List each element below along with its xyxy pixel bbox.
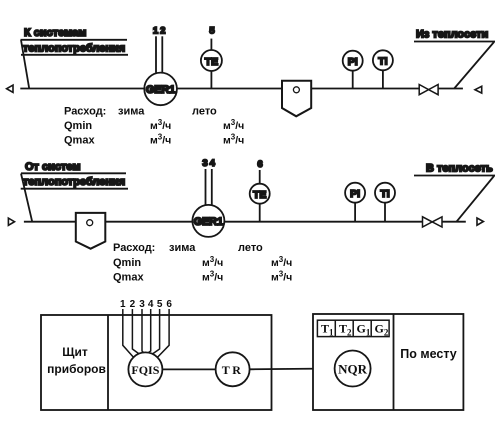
svg-text:В теплосеть: В теплосеть [426, 163, 493, 175]
callout: В теплосеть [414, 163, 495, 222]
svg-text:6: 6 [166, 299, 172, 310]
svg-text:лето: лето [238, 242, 263, 254]
svg-text:Qmax: Qmax [64, 135, 95, 147]
svg-text:3: 3 [139, 299, 145, 310]
pipe: return line [24, 221, 466, 223]
terminal strip T1 T2 G1 G2 [317, 320, 389, 337]
svg-text:PI: PI [350, 188, 360, 200]
svg-text:NQR: NQR [338, 361, 368, 376]
svg-text:2: 2 [160, 26, 165, 37]
thermometer TE pos.6 [250, 159, 270, 222]
svg-text:5: 5 [157, 299, 163, 310]
pressure gauge PI (return) [345, 183, 365, 222]
flow table (supply) [64, 106, 244, 147]
thermometer TI (supply) [373, 50, 393, 88]
svg-text:4: 4 [148, 299, 154, 310]
flow computer FQIS [128, 352, 162, 386]
valve (return) [423, 217, 443, 227]
svg-text:GER1: GER1 [146, 84, 175, 96]
svg-text:Qmin: Qmin [64, 120, 92, 132]
svg-text:зима: зима [118, 106, 145, 118]
svg-text:Qmin: Qmin [113, 257, 141, 269]
svg-text:Из теплосети: Из теплосети [416, 29, 488, 41]
thermometer TI (return) [375, 183, 395, 222]
svg-text:5: 5 [209, 26, 215, 37]
svg-text:Qmax: Qmax [113, 272, 144, 284]
mud filter (pentagon) supply [282, 81, 311, 117]
svg-text:1: 1 [120, 299, 126, 310]
signal wire FQIS-TR [162, 368, 215, 370]
svg-text:зима: зима [169, 242, 196, 254]
panel box: Щит приборов [41, 315, 272, 410]
svg-text:теплопотребления: теплопотребления [23, 176, 125, 188]
svg-text:TE: TE [253, 189, 266, 201]
svg-text:TI: TI [380, 188, 389, 200]
flow meter GER1 (return) [192, 205, 224, 237]
svg-text:лето: лето [192, 106, 217, 118]
heat calculator NQR [335, 351, 371, 387]
svg-text:3: 3 [202, 158, 207, 169]
valve (supply) [419, 85, 438, 95]
svg-text:приборов: приборов [47, 362, 106, 376]
pipe: supply line [20, 88, 463, 90]
impulse lines 3,4 [202, 158, 215, 206]
thermometer TE pos.5 [201, 26, 222, 89]
svg-text:GER1: GER1 [194, 216, 223, 228]
svg-text:TI: TI [378, 56, 387, 68]
svg-text:Расход:: Расход: [64, 106, 106, 118]
impulse lines 1,2 [153, 26, 166, 73]
flow table (return) [113, 242, 292, 284]
svg-text:PI: PI [348, 56, 358, 68]
svg-text:Расход:: Расход: [113, 242, 155, 254]
pressure gauge PI (supply) [343, 51, 363, 89]
flow arrow right (supply, pointing left) [475, 86, 482, 93]
svg-text:От систем: От систем [25, 161, 81, 173]
sensor leads 1-6 to FQIS [120, 299, 172, 357]
svg-text:1: 1 [153, 26, 159, 37]
temperature recorder TR [216, 352, 250, 386]
svg-text:6: 6 [257, 159, 262, 170]
flow arrow left (supply, pointing left) [7, 85, 13, 92]
svg-text:теплопотребления: теплопотребления [23, 43, 125, 55]
svg-text:4: 4 [210, 158, 216, 169]
callout: Из теплосети [414, 29, 495, 89]
svg-text:FQIS: FQIS [131, 363, 159, 377]
svg-text:К системам: К системам [24, 27, 86, 39]
svg-text:Щит: Щит [62, 345, 88, 359]
svg-text:2: 2 [130, 299, 136, 310]
field box [313, 314, 463, 410]
mud filter (pentagon) return [76, 213, 106, 249]
flow arrow right (return, pointing right) [477, 218, 483, 225]
svg-text:TR: TR [222, 363, 244, 377]
flow meter GER1 (supply) [144, 73, 177, 106]
svg-text:TE: TE [205, 56, 218, 68]
callout: От систем теплопотребления [21, 161, 128, 222]
callout: К системам теплопотребления [21, 27, 129, 89]
svg-text:По месту: По месту [400, 347, 457, 361]
signal wire TR-NQR [250, 368, 335, 371]
flow arrow left (return, pointing right) [8, 218, 14, 225]
